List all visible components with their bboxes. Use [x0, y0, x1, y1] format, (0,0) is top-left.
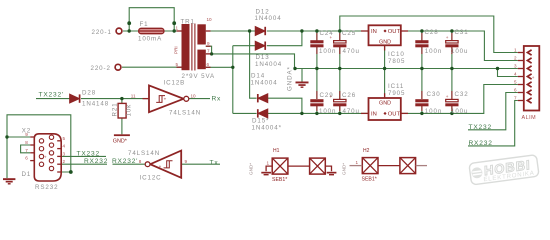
- diode D13: [255, 42, 265, 50]
- svg-text:2*9V 5VA: 2*9V 5VA: [182, 73, 216, 80]
- wire 220-1 pad to fuse: [123, 30, 140, 32]
- svg-text:7905: 7905: [388, 90, 405, 97]
- svg-text:C32: C32: [455, 91, 469, 98]
- junction C30 minus5: [420, 112, 423, 115]
- svg-text:IC12B: IC12B: [164, 80, 186, 87]
- svg-text:100mA: 100mA: [138, 36, 162, 43]
- wire C31 leads: [451, 31, 453, 69]
- wire D13 row to anode: [233, 45, 255, 47]
- svg-text:100u: 100u: [451, 48, 468, 55]
- wire R21 bottom lead to GND: [121, 118, 123, 134]
- junction C32 gnd: [450, 67, 453, 70]
- svg-text:2: 2: [514, 56, 517, 61]
- svg-text:+: +: [532, 75, 535, 80]
- svg-text:1N4004: 1N4004: [255, 61, 282, 68]
- svg-text:D28: D28: [82, 90, 96, 97]
- wire trafo pin10 to D12 anode: [206, 30, 255, 32]
- svg-text:+: +: [44, 155, 47, 160]
- junction 7805 gnd: [383, 67, 386, 70]
- svg-text:7805: 7805: [388, 58, 405, 65]
- svg-text:+: +: [330, 94, 333, 99]
- pad 220-1: [116, 28, 122, 34]
- wire center tap to GNDA corner: [212, 54, 295, 69]
- svg-text:D13: D13: [256, 54, 270, 61]
- fuse F1: [139, 28, 164, 33]
- capacitor C28: [415, 33, 428, 54]
- wire C32 leads: [451, 69, 453, 114]
- svg-text:GND*: GND*: [342, 163, 347, 175]
- wire DB9 RX232 stub: [61, 163, 107, 165]
- svg-text:F1: F1: [140, 21, 149, 28]
- svg-text:+: +: [164, 97, 167, 102]
- resistor R21: [118, 103, 126, 118]
- wire fuse bypass loop: [129, 8, 174, 31]
- svg-text:PRI: PRI: [174, 46, 179, 54]
- svg-text:100n: 100n: [425, 48, 442, 55]
- junction pin6 branch: [231, 66, 234, 69]
- wire D28 cathode to IC12B pin11: [81, 98, 149, 100]
- wire D15 row to cathode: [233, 112, 257, 114]
- junction C25 top: [338, 29, 341, 32]
- svg-text:3: 3: [63, 151, 66, 156]
- wire DB9 pin9 branch: [7, 136, 30, 138]
- svg-text:11: 11: [131, 94, 136, 99]
- wire C29 leads: [316, 69, 318, 114]
- svg-text:C31: C31: [455, 29, 469, 36]
- wire C30 leads: [421, 69, 423, 114]
- svg-text:9: 9: [25, 132, 28, 137]
- wire unregulated to connector pin1 over the top: [340, 16, 518, 53]
- svg-text:IC11: IC11: [388, 83, 404, 90]
- svg-text:4: 4: [514, 72, 517, 77]
- junction C30 gnd: [420, 67, 423, 70]
- capacitor C25 polarized: [333, 33, 346, 54]
- wire trafo pin6 to D13/D15 branch: [206, 66, 233, 68]
- wire GNDA stub: [301, 69, 303, 82]
- svg-text:C30: C30: [427, 91, 441, 98]
- svg-text:GNDA*: GNDA*: [287, 66, 294, 91]
- svg-text:TX232': TX232': [39, 91, 65, 98]
- wire fuse to transformer pin1: [164, 30, 182, 32]
- svg-text:8: 8: [139, 159, 142, 164]
- svg-text:RX232': RX232': [112, 158, 138, 165]
- svg-text:10k: 10k: [126, 104, 133, 117]
- svg-text:RX232: RX232: [469, 140, 493, 147]
- junction C28 plus5: [420, 29, 423, 32]
- svg-text:470u: 470u: [343, 48, 360, 55]
- junction C24 top: [315, 29, 318, 32]
- ground symbol GNDA: [296, 82, 309, 88]
- wire C25 leads: [339, 31, 341, 69]
- junction C32 minus5: [450, 112, 453, 115]
- svg-text:D14: D14: [251, 73, 265, 80]
- svg-text:TX232: TX232: [469, 124, 492, 131]
- junction C25 gnd: [338, 67, 341, 70]
- svg-text:+: +: [159, 164, 162, 169]
- svg-text:+: +: [446, 94, 449, 99]
- svg-text:1N4148: 1N4148: [82, 101, 109, 108]
- svg-text:7: 7: [207, 49, 210, 54]
- pad 220-2: [115, 64, 121, 70]
- junction D28 to R21: [120, 97, 123, 100]
- wire DB9 TX232 stub: [61, 155, 106, 157]
- svg-text:GND*: GND*: [113, 138, 128, 144]
- capacitor C24: [310, 33, 323, 54]
- svg-text:R21: R21: [112, 102, 119, 116]
- wire D14 anode to minus raw: [268, 98, 302, 113]
- wire D13 cathode up to plus raw rail: [267, 31, 302, 46]
- svg-text:1: 1: [514, 48, 517, 53]
- svg-text:+: +: [330, 35, 333, 40]
- wire R21 top lead: [121, 99, 123, 104]
- voltage regulator IC11 7905: [361, 93, 408, 120]
- svg-text:3: 3: [514, 64, 517, 69]
- svg-text:Tx: Tx: [210, 160, 219, 167]
- junction C31 plus5: [450, 29, 453, 32]
- svg-text:2: 2: [63, 159, 66, 164]
- wire IC12B output to Rx stub: [189, 98, 210, 100]
- svg-text:RX232: RX232: [84, 158, 108, 165]
- jumper H1: [266, 158, 331, 174]
- svg-text:6: 6: [207, 62, 210, 67]
- wire C28 leads: [421, 31, 423, 69]
- svg-text:7: 7: [25, 148, 28, 153]
- capacitor C30: [415, 91, 428, 111]
- capacitor C31 polarized: [445, 33, 458, 54]
- svg-text:ALIM: ALIM: [522, 115, 537, 121]
- ground symbol DB9 shield: [3, 178, 15, 184]
- svg-text:9: 9: [185, 159, 188, 164]
- connector X2 DB9 RS232: [30, 134, 61, 181]
- capacitor C29: [310, 91, 323, 111]
- wire 220-2 pad to transformer pin5: [122, 66, 182, 68]
- svg-text:TR1: TR1: [181, 19, 195, 26]
- wire trafo pin9 to pin7 center tap jog: [206, 46, 212, 54]
- wire 7805 OUT +5 rail to connector pin2: [401, 31, 518, 61]
- wire 7905 OUT -5 rail to connector pin5: [401, 85, 518, 114]
- svg-text:OUT: OUT: [388, 29, 401, 35]
- svg-text:IN: IN: [371, 29, 377, 35]
- wire D12 cathode to 7805 IN rail: [267, 30, 369, 32]
- junction fuse left: [128, 29, 131, 32]
- wire TX232 to connector pin6: [468, 93, 518, 130]
- capacitor C32 polarized: [445, 91, 458, 111]
- junction GNDA on rail: [293, 67, 296, 70]
- svg-text:RS232: RS232: [35, 184, 58, 191]
- junction fuse right: [173, 29, 176, 32]
- svg-text:470u: 470u: [343, 108, 360, 115]
- diode D15: [258, 109, 268, 117]
- svg-text:10: 10: [191, 94, 197, 99]
- ground symbol H1 left: [261, 172, 271, 176]
- junction DB9 frame pin1: [69, 170, 73, 174]
- junction C24 gnd: [315, 67, 318, 70]
- jumper H2: [350, 158, 428, 174]
- svg-text:Rx: Rx: [212, 96, 222, 103]
- junction gnd to pin4: [496, 67, 499, 70]
- ground symbol H1 right: [327, 172, 337, 176]
- svg-text:220-2: 220-2: [91, 65, 111, 72]
- wire D12 junction down to D14: [250, 31, 257, 98]
- svg-text:100n: 100n: [319, 108, 336, 115]
- wire TX232' to D28 anode: [36, 98, 70, 100]
- svg-text:GND: GND: [379, 100, 391, 106]
- svg-text:100n: 100n: [319, 48, 336, 55]
- svg-text:GND: GND: [379, 39, 391, 45]
- junction C29 bottom: [315, 112, 318, 115]
- svg-text:1N4004: 1N4004: [255, 15, 282, 22]
- junction center tap: [210, 52, 213, 55]
- junction C26 bottom: [338, 112, 341, 115]
- svg-text:5: 5: [176, 62, 179, 67]
- ground symbol under R21: [114, 134, 130, 136]
- op-amp gate IC12C 74LS14 inverter mirrored: [145, 151, 181, 178]
- wire RX232 to connector pin7: [468, 101, 518, 146]
- svg-text:10: 10: [207, 17, 213, 22]
- wire IC12C input pin9 to Tx stub: [181, 163, 220, 165]
- wire GND to connector pin3 and pin4: [498, 69, 518, 77]
- svg-text:6: 6: [25, 156, 28, 161]
- svg-text:SEB1*: SEB1*: [272, 177, 287, 183]
- svg-text:1N4004*: 1N4004*: [252, 125, 282, 132]
- svg-text:5: 5: [514, 80, 517, 85]
- svg-text:OUT: OUT: [388, 111, 401, 117]
- svg-text:C26: C26: [342, 92, 356, 99]
- diode D28: [70, 94, 80, 102]
- svg-text:+: +: [446, 35, 449, 40]
- junction DB9 pin9: [5, 135, 8, 138]
- wire DB9 pins 8-7 tie loop: [21, 145, 31, 153]
- svg-text:100u: 100u: [451, 108, 468, 115]
- wire GND rail: [295, 68, 518, 70]
- wire 7905 GND pin: [384, 69, 386, 99]
- diode D14: [258, 94, 268, 102]
- capacitor C26 polarized: [333, 91, 346, 111]
- wire DB9 shield frame to ground: [7, 115, 71, 178]
- svg-text:74LS14N: 74LS14N: [128, 150, 160, 157]
- svg-text:6: 6: [514, 88, 517, 93]
- transformer TR1: [177, 24, 211, 71]
- svg-text:C25: C25: [342, 30, 356, 37]
- wire 7805 GND pin: [384, 45, 386, 68]
- svg-text:9: 9: [207, 41, 210, 46]
- connector ALIM 7 pin header: [518, 46, 540, 111]
- svg-text:SEB1*: SEB1*: [362, 177, 377, 183]
- diode D12: [255, 27, 265, 35]
- junction D13 joins plus rail: [300, 29, 303, 32]
- svg-text:H2: H2: [363, 148, 370, 154]
- svg-text:74LS14N: 74LS14N: [169, 110, 201, 117]
- svg-text:220-1: 220-1: [92, 29, 112, 36]
- wire D13 branch vertical x232.8: [232, 46, 234, 114]
- wire D15 anode minus raw rail to 7905 IN: [268, 112, 369, 114]
- wire RX232' stub to IC12C output bubble: [113, 163, 145, 165]
- logo HOBBI ELEKTRONIKA watermark: [469, 155, 539, 185]
- svg-text:100n: 100n: [425, 108, 442, 115]
- voltage regulator IC10 7805: [361, 25, 408, 50]
- svg-text:IC12C: IC12C: [140, 175, 162, 182]
- svg-text:7: 7: [514, 96, 517, 101]
- svg-text:1: 1: [356, 160, 359, 165]
- wire C24 leads: [316, 31, 318, 69]
- junction D12 branch: [248, 29, 251, 32]
- svg-text:D15*: D15*: [252, 118, 269, 125]
- svg-text:1: 1: [176, 26, 179, 31]
- svg-text:1N4004: 1N4004: [251, 80, 278, 87]
- svg-text:TX232: TX232: [77, 150, 100, 157]
- wire C26 leads: [339, 69, 341, 114]
- svg-text:IN: IN: [371, 111, 377, 117]
- svg-text:C28: C28: [425, 29, 439, 36]
- svg-text:D1: D1: [22, 171, 32, 178]
- op-amp gate IC12B 74LS14 inverter: [143, 85, 189, 112]
- svg-text:H1: H1: [273, 148, 280, 154]
- junction D14 joins minus rail: [300, 112, 303, 115]
- svg-text:1: 1: [267, 161, 270, 166]
- svg-text:GND*: GND*: [249, 163, 254, 175]
- svg-text:5: 5: [63, 136, 66, 141]
- svg-text:8: 8: [25, 140, 28, 145]
- svg-text:4: 4: [63, 144, 66, 149]
